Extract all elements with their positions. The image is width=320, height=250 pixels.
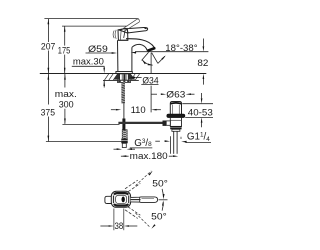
lever handle (solid, horizontal) [120,27,148,33]
svg-text:38: 38 [115,221,124,232]
deck hatching [105,74,109,80]
hose end fitting G3/8 (dark) [121,139,127,144]
lever handle raised position (phantom) [122,20,136,29]
G3/8 threaded tube end [122,143,126,147]
max.300 bottom reference line (pop-up rod level) [62,124,119,126]
rod cross clamp [122,119,125,130]
svg-text:max.: max. [55,89,77,100]
extension line from aerator down to 110 dim [150,53,152,74]
svg-text:50°: 50° [152,179,168,190]
dimension extension line (175 ref) [62,25,127,27]
top view: spout stub [105,196,111,203]
dimension 40-53 (basin clamping range) [182,103,213,105]
lever cap (cartridge cover) [118,28,128,40]
dimension 110 (spout projection) [111,109,116,111]
svg-text:375: 375 [41,108,55,119]
svg-text:110: 110 [131,105,146,116]
svg-text:G11/4: G11/4 [187,132,210,143]
svg-text:Ø34: Ø34 [142,76,158,87]
dimension 175 [64,26,66,45]
pop-up lift rod [123,103,125,118]
svg-text:50°: 50° [151,212,167,223]
phantom cap swing lines [113,31,114,39]
faucet base ring [116,71,132,73]
top view: faucet body [111,191,130,207]
horizontal pop-up rod to waste [118,122,162,124]
svg-text:max.180: max.180 [130,151,168,162]
top view: lever handle [131,197,158,203]
threaded mounting stud (hatched) [121,82,125,103]
waste flange (dark) [167,114,185,117]
waste body [170,118,181,127]
rod coupling nut (dark) [163,121,167,126]
mounting deck bottom line [103,79,139,81]
svg-text:82: 82 [197,58,208,69]
50° swing arc lower [162,202,163,210]
svg-text:207: 207 [41,41,55,52]
50° swing arc upper [162,189,163,197]
lever axis tick [159,199,168,201]
spray angle rays [142,52,149,60]
aerator outlet (dark) [147,48,155,51]
waste locknut (dark) [170,126,181,129]
dimension Ø63 (flange) [151,93,157,95]
dimension max.180 [121,155,126,157]
top view: lever swung -50° (dashed) [125,210,138,219]
svg-text:300: 300 [59,99,74,110]
pop-up waste: plug cap [170,102,181,115]
375 bottom reference line [46,141,122,143]
dimension 38 (lever width) [113,209,115,231]
top view: lever swung +50° (dashed) [125,180,138,189]
top view: lever knob (edge-on) [122,197,125,203]
svg-text:Ø63: Ø63 [166,89,185,100]
shank through deck [113,74,119,80]
backnut washer below deck [117,80,130,82]
dimension extension line top (to raised-lever tip, 207 ref) [44,18,138,20]
spray swing arc with arrowheads [142,60,152,65]
spout underside curve [132,44,148,50]
dimension 207 [47,19,49,42]
flexible supply hose (braided) [122,130,127,139]
G3/8 thread dimension arrows [114,148,117,150]
faucet body top line [118,39,128,41]
dimension max.300 [64,74,66,88]
faucet body outline [117,40,119,71]
spout outer curve [126,39,154,47]
svg-text:18°-38°: 18°-38° [165,43,197,54]
waste tailpipe G1 1/4 [173,131,175,154]
mounting deck top line [40,73,207,75]
svg-text:175: 175 [58,45,71,56]
label G1 1/4 with underline and thread arrows [169,136,171,154]
dimension 375 [47,74,49,105]
svg-text:40-53: 40-53 [188,107,213,118]
dimension 82 (outlet height) [202,39,204,47]
